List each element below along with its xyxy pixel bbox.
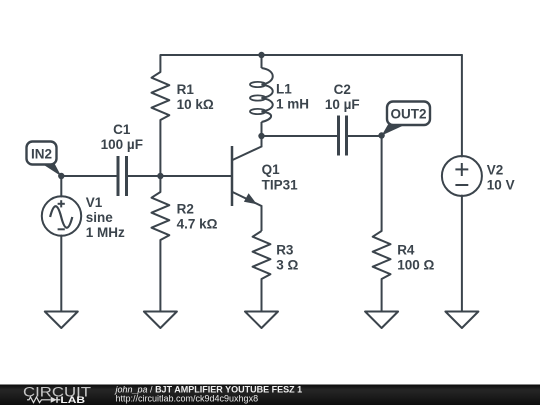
resistor R1 xyxy=(152,55,170,120)
source V2 (DC) xyxy=(442,156,482,196)
svg-text:10 V: 10 V xyxy=(487,178,515,193)
svg-text:LAB: LAB xyxy=(60,395,85,405)
svg-text:V2: V2 xyxy=(487,163,504,178)
node dot R1/R2 base xyxy=(157,173,163,179)
svg-text:R4: R4 xyxy=(397,243,415,258)
resistor R4 xyxy=(373,231,391,279)
resistor R3 xyxy=(253,231,271,279)
inductor L1 xyxy=(250,55,273,136)
svg-text:http://circuitlab.com/ck9d4c9u: http://circuitlab.com/ck9d4c9uxhgx8 xyxy=(116,394,259,404)
capacitor C2 xyxy=(339,116,347,156)
wire top rail xyxy=(160,54,462,56)
wire right vertical lower (V2 bottom lead) xyxy=(461,196,463,312)
wire R4 bottom lead xyxy=(381,279,383,312)
wire C2 to OUT2 node xyxy=(348,135,382,137)
capacitor C1 xyxy=(118,156,127,196)
svg-text:R2: R2 xyxy=(177,202,194,217)
wire base row left (input node to C1) xyxy=(61,175,117,177)
ground (V2) xyxy=(445,312,478,329)
svg-text:10 kΩ: 10 kΩ xyxy=(177,97,214,112)
svg-text:3 Ω: 3 Ω xyxy=(276,258,298,273)
wire R3 bottom lead xyxy=(261,279,263,312)
ground (V1) xyxy=(45,312,78,329)
wire V1 bottom lead xyxy=(60,236,62,312)
svg-text:OUT2: OUT2 xyxy=(390,107,426,122)
svg-text:1 mH: 1 mH xyxy=(276,97,309,112)
svg-text:R1: R1 xyxy=(177,82,195,97)
svg-text:IN2: IN2 xyxy=(31,146,52,161)
flag OUT2 xyxy=(382,125,405,136)
wire collector row (L1 bottom node to C2) xyxy=(262,135,338,137)
node dot collector xyxy=(258,133,264,139)
wire R4 top lead xyxy=(381,136,383,231)
node dot OUT2 xyxy=(378,132,384,138)
node dot top rail / L1 xyxy=(258,52,264,58)
wire V1 top lead xyxy=(60,176,62,197)
logo diode xyxy=(51,397,57,403)
wire R1 bottom lead xyxy=(159,120,161,176)
ground (R2) xyxy=(144,312,177,329)
wire R2 bottom lead xyxy=(159,240,161,312)
node dot IN2 xyxy=(58,173,64,179)
svg-text:10 µF: 10 µF xyxy=(325,97,360,112)
svg-text:1 MHz: 1 MHz xyxy=(86,225,125,240)
svg-text:sine: sine xyxy=(86,210,114,225)
wire right vertical upper (V2 top lead) xyxy=(461,55,463,157)
svg-text:100 µF: 100 µF xyxy=(101,137,143,152)
source V1 (sine) xyxy=(42,196,81,235)
Q1 emitter arrow xyxy=(244,193,257,204)
transistor Q1 xyxy=(232,136,262,231)
flag IN2 xyxy=(42,164,62,177)
svg-text:C1: C1 xyxy=(113,122,131,137)
svg-text:V1: V1 xyxy=(86,195,103,210)
ground (R4) xyxy=(365,312,398,329)
svg-text:Q1: Q1 xyxy=(262,162,281,177)
svg-text:L1: L1 xyxy=(276,82,292,97)
ground (R3) xyxy=(245,312,278,329)
svg-text:4.7 kΩ: 4.7 kΩ xyxy=(177,217,218,232)
svg-text:TIP31: TIP31 xyxy=(262,177,299,192)
resistor R2 xyxy=(152,176,170,240)
svg-text:R3: R3 xyxy=(276,243,294,258)
wire base row right (C1 to Q1 base) xyxy=(128,175,233,177)
svg-text:C2: C2 xyxy=(334,82,351,97)
logo resistor zigzag xyxy=(27,397,51,403)
svg-text:100 Ω: 100 Ω xyxy=(397,258,434,273)
